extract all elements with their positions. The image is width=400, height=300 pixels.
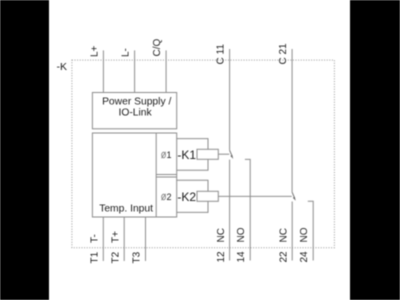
device boundary -K (dashed enclosure) [72,60,335,248]
wire L+ [102,50,104,92]
svg-text:22: 22 [278,251,289,263]
wire T1 [102,217,104,261]
wire L- [134,50,136,92]
svg-text:NC: NC [278,228,289,242]
svg-text:24: 24 [299,251,310,263]
wire T2 [123,217,125,261]
wire NO 24 [308,201,313,260]
contact 2 blade (changeover contact of K2) [292,192,295,198]
relay coil K1 [197,149,218,159]
wire C/Q [165,50,167,92]
wire K2 coil to contact 2 [218,195,291,197]
port cell divider 2 [156,176,177,178]
svg-text:C 11: C 11 [216,44,227,65]
wire NC 22 [291,202,293,261]
port cell divider 1 [156,174,177,176]
svg-text:12: 12 [216,251,227,263]
wire C 21 (common of contact 2) [291,49,293,192]
svg-text:T2: T2 [110,251,121,263]
svg-text:-K: -K [57,61,68,73]
svg-text:C/Q: C/Q [152,39,163,57]
svg-text:-K1: -K1 [177,148,196,162]
block U1: Power Supply / IO-Link [92,93,176,129]
svg-text:Temp. Input: Temp. Input [99,204,153,215]
svg-text:IO-Link: IO-Link [118,108,152,119]
wire NO 14 [245,159,250,260]
svg-text:T-: T- [89,234,100,243]
wire K1 coil lower [177,159,208,170]
port column divider [155,133,157,217]
wire K2 coil lower [177,201,208,212]
svg-text:NO: NO [236,227,247,242]
wire T3 [145,217,147,261]
svg-text:T1: T1 [89,251,100,263]
svg-text:L+: L+ [89,45,100,57]
relay coil K2 [197,191,218,201]
svg-text:-K2: -K2 [177,190,196,204]
wire K2 coil upper [177,180,208,191]
wire C 11 (common of contact 1) [229,49,231,150]
wire NC 12 [229,160,231,261]
block U2: Temp. Input [92,133,176,217]
svg-text:T3: T3 [132,251,143,263]
contact 1 blade (changeover contact of K1) [230,150,233,156]
svg-text:Power Supply /: Power Supply / [102,97,171,108]
svg-text:T+: T+ [110,231,121,243]
svg-text:NC: NC [216,228,227,242]
svg-text:14: 14 [236,251,247,263]
svg-text:C 21: C 21 [278,43,289,65]
svg-text:1: 1 [167,150,172,160]
port symbol ⌀1 [162,150,172,160]
wire K1 coil upper [177,139,208,150]
svg-text:L-: L- [121,48,132,57]
port symbol ⌀2 [162,192,172,202]
svg-text:NO: NO [299,227,310,242]
wire K1 coil to contact 1 [218,153,229,155]
svg-text:2: 2 [167,192,172,202]
